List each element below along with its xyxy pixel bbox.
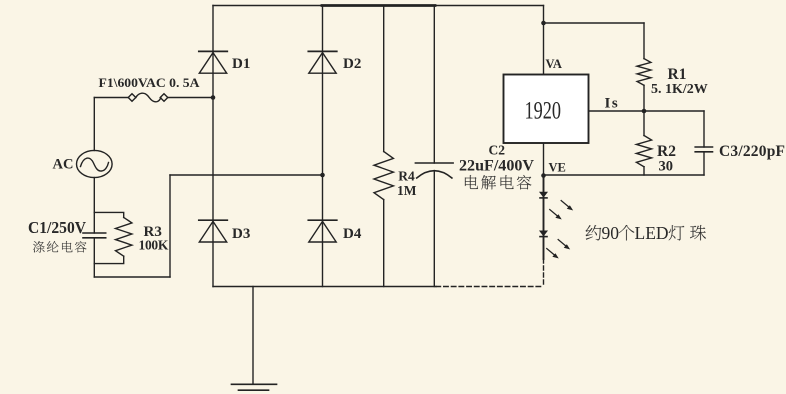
svg-text:F1\600VAC 0. 5A: F1\600VAC 0. 5A bbox=[99, 75, 201, 90]
wire R3 top connector bbox=[94, 212, 123, 217]
ground symbol bbox=[232, 384, 277, 390]
svg-text:LED: LED bbox=[635, 223, 669, 243]
wire C3 top lead bbox=[703, 111, 705, 147]
wire riser up bbox=[169, 175, 171, 277]
svg-text:30: 30 bbox=[659, 159, 674, 175]
junction dot at VE node bbox=[541, 173, 546, 178]
svg-text:R4: R4 bbox=[398, 169, 415, 184]
wire LED string solid bbox=[543, 176, 545, 260]
resistor R3 bbox=[116, 217, 132, 256]
wire ground stem bbox=[252, 287, 254, 385]
wire R4 column bottom bbox=[383, 200, 385, 287]
LED LED2 bbox=[540, 231, 547, 237]
diode D2 bbox=[308, 51, 337, 73]
LED LED1 bbox=[540, 192, 547, 198]
svg-text:R2: R2 bbox=[657, 143, 676, 160]
wire VA lead into IC bbox=[543, 23, 545, 75]
wire AC bottom lead to C1 bbox=[93, 178, 95, 234]
wire C1 bottom lead bbox=[93, 238, 95, 277]
wire R3 bottom connector bbox=[94, 256, 123, 263]
junction dot Is node bbox=[642, 109, 647, 114]
wire VE node to R2/C3 bottom bbox=[544, 174, 705, 176]
resistor R4 bbox=[374, 152, 393, 200]
svg-text:22uF/400V: 22uF/400V bbox=[459, 158, 534, 175]
svg-text:VE: VE bbox=[549, 160, 566, 174]
IC U1 1920 box bbox=[504, 75, 589, 144]
node junction dot at VA branch bbox=[541, 21, 546, 26]
wire VE lead out of IC bbox=[543, 143, 545, 176]
junction dot fuse to D1/D3 column bbox=[211, 95, 216, 100]
svg-text:1920: 1920 bbox=[525, 97, 562, 124]
svg-text:C2: C2 bbox=[489, 143, 506, 158]
wire D2/D4 column bbox=[322, 6, 324, 287]
wire top-right corner down to node bbox=[543, 6, 545, 24]
svg-text:5. 1K/2W: 5. 1K/2W bbox=[651, 82, 708, 97]
svg-text:90: 90 bbox=[602, 223, 620, 243]
wire R2 top lead bbox=[643, 111, 645, 136]
wire R4 column top bbox=[383, 6, 385, 152]
label C2 type (electrolytic) bbox=[465, 175, 531, 189]
wire node to R1 top bbox=[544, 22, 645, 24]
svg-text:1M: 1M bbox=[397, 183, 417, 198]
wire R1 branch top lead bbox=[643, 23, 645, 59]
label LED string description bbox=[586, 223, 706, 243]
wire AC top lead bbox=[93, 98, 95, 151]
wire Is node to C3 top bbox=[644, 110, 704, 112]
capacitor C3 bbox=[695, 147, 712, 152]
diode D1 bbox=[199, 51, 228, 73]
wire fuse line from AC to bridge bbox=[94, 97, 213, 99]
svg-text:D4: D4 bbox=[343, 226, 362, 242]
wire top rail thick segment bbox=[322, 4, 435, 7]
LED2 emission arrows bbox=[547, 240, 570, 258]
wire C2 column bottom bbox=[433, 171, 435, 287]
resistor R2 bbox=[636, 136, 651, 167]
wire bottom rail bbox=[213, 286, 436, 288]
wire Is line from IC to R1/R2 node bbox=[589, 110, 645, 112]
capacitor C1 bbox=[83, 233, 106, 238]
wire R2 bottom lead bbox=[643, 167, 645, 175]
wire D1/D3 column bbox=[212, 6, 214, 287]
wire AC2 line to D2/D4 junction bbox=[170, 174, 323, 176]
fuse F1 symbol bbox=[128, 93, 168, 102]
AC source V1 bbox=[77, 150, 113, 177]
wire top rail bbox=[213, 5, 544, 7]
junction dot at D2/D4 bbox=[320, 173, 325, 178]
wire LED string dashed continuation bbox=[543, 259, 545, 287]
resistor R1 bbox=[637, 59, 651, 86]
wire C2 column top bbox=[433, 6, 435, 164]
svg-text:R1: R1 bbox=[668, 66, 687, 83]
svg-text:C3/220pF: C3/220pF bbox=[719, 143, 785, 160]
capacitor C2 (electrolytic) bbox=[415, 163, 453, 178]
label C1 type (polyester cap) bbox=[33, 241, 87, 253]
diode D3 bbox=[199, 220, 228, 242]
svg-text:AC: AC bbox=[53, 157, 74, 173]
LED1 emission arrows bbox=[550, 201, 573, 219]
svg-text:Is: Is bbox=[605, 96, 620, 112]
wire R1 bottom lead bbox=[643, 85, 645, 111]
wire dashed bottom return (LED string) bbox=[436, 286, 544, 288]
diode D4 bbox=[308, 220, 337, 242]
svg-text:D1: D1 bbox=[232, 56, 250, 72]
wire C1 bottom to riser bbox=[94, 276, 170, 278]
svg-text:100K: 100K bbox=[139, 238, 169, 253]
svg-text:C1/250V: C1/250V bbox=[28, 218, 87, 237]
svg-text:VA: VA bbox=[546, 57, 562, 71]
svg-text:D2: D2 bbox=[343, 56, 361, 72]
wire C3 bottom lead bbox=[703, 152, 705, 175]
svg-text:D3: D3 bbox=[232, 226, 250, 242]
